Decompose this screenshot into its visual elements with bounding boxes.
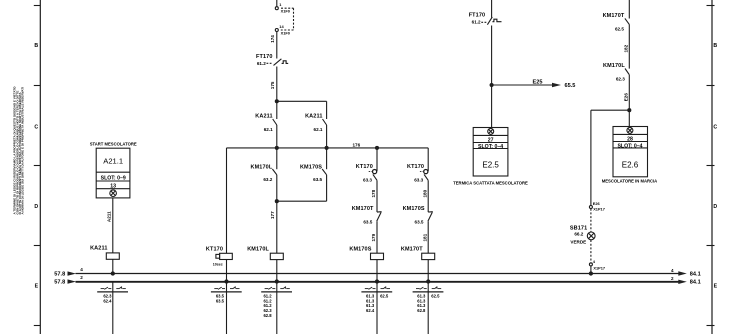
svg-text:62.5: 62.5 (380, 294, 389, 299)
node coil KM170S to rail 2 (375, 280, 378, 283)
svg-text:TERMICA SCATTATA MESCOLATORE: TERMICA SCATTATA MESCOLATORE (453, 180, 528, 185)
PLC block A21.1 caption (90, 142, 137, 147)
rail 1 dest arrow 84.1 (678, 271, 687, 275)
svg-text:C: C (34, 125, 38, 131)
property notice rotated text (13, 86, 25, 215)
svg-text:178: 178 (371, 189, 376, 197)
node split to KA211 branch (275, 100, 278, 103)
svg-text:FT170: FT170 (469, 13, 486, 19)
svg-text:177: 177 (270, 211, 275, 219)
svg-text:66.2: 66.2 (574, 231, 583, 236)
wire E25 to next page arrow (492, 84, 553, 86)
svg-text:4: 4 (671, 268, 674, 273)
svg-text:C: C (713, 125, 717, 131)
svg-text:KM170L: KM170L (250, 164, 272, 170)
svg-text:E: E (714, 284, 718, 290)
node E26 branch (628, 109, 631, 112)
caption E2.5 (453, 180, 528, 185)
left row letters (34, 43, 38, 290)
node on 176 at col2 (325, 146, 328, 149)
svg-text:KM170S: KM170S (300, 164, 322, 170)
svg-text:63.5: 63.5 (313, 177, 322, 182)
svg-text:KM170L: KM170L (247, 246, 269, 252)
wire branch to column 2 (277, 100, 327, 102)
svg-text:14: 14 (279, 24, 284, 29)
wire 179 (376, 221, 378, 253)
svg-text:E2.6: E2.6 (622, 160, 639, 169)
svg-text:28: 28 (627, 136, 633, 142)
svg-text:182: 182 (623, 44, 628, 52)
node coil KA211 to rail 1 (111, 272, 114, 275)
node E25 (490, 84, 493, 87)
svg-text:KA211: KA211 (90, 246, 107, 252)
svg-text:176: 176 (353, 142, 361, 147)
svg-text:4: 4 (80, 267, 83, 272)
svg-text:57.8: 57.8 (54, 279, 65, 285)
svg-text:MESCOLATORE IN MARCIA: MESCOLATORE IN MARCIA (602, 179, 657, 184)
svg-text:181: 181 (422, 233, 427, 241)
svg-text:63.2: 63.2 (263, 177, 272, 182)
svg-text:X1P17: X1P17 (593, 266, 605, 271)
dashed wire to lamp (590, 209, 592, 232)
PLC input card E2.5 (473, 128, 508, 177)
svg-text:SLOT: 0–4: SLOT: 0–4 (617, 143, 642, 149)
wire from top (KM170T right col) (628, 0, 630, 19)
svg-text:27: 27 (488, 137, 494, 143)
thermal overload contact FT170 (right) (481, 17, 501, 25)
svg-text:13: 13 (110, 184, 116, 190)
wire E26 (628, 75, 630, 127)
contact mirror KM170T (413, 286, 444, 292)
wire from 176 down to KT170 coil (226, 148, 228, 253)
PLC output point symbol (110, 190, 117, 197)
svg-text:E25: E25 (533, 79, 543, 85)
svg-text:KT170: KT170 (407, 164, 424, 170)
contact KA211 (col 2) (326, 101, 328, 119)
coil KA211 (90, 246, 107, 252)
contact KM170L (col 1) (276, 148, 278, 169)
contact mirror KT170 (211, 286, 242, 292)
coil KM170T (401, 246, 423, 252)
svg-text:VERDE: VERDE (570, 240, 586, 245)
svg-text:KM170T: KM170T (352, 206, 374, 212)
svg-text:63.5: 63.5 (216, 298, 225, 303)
contact KM170S NC (col 4) (428, 212, 433, 222)
contact KM170T (right col) (625, 18, 629, 24)
node coil KM170T to rail 2 (427, 280, 430, 283)
rail 1 source arrow 57.8 (68, 271, 77, 275)
svg-text:62.8: 62.8 (417, 308, 426, 313)
svg-text:62.4: 62.4 (366, 308, 375, 313)
wire 176 corner down at col 4 (427, 148, 429, 171)
PLC input point symbol (627, 127, 633, 133)
contact KT170 timer (col 3) (376, 148, 378, 171)
wire from top (FT170 right) (491, 0, 493, 18)
coil KM170S (349, 246, 371, 252)
svg-text:62.5: 62.5 (431, 294, 440, 299)
svg-text:10sec: 10sec (213, 263, 223, 267)
contact KM170L (right col) (625, 69, 629, 75)
contact KT170 timer (col 4) (420, 170, 428, 181)
svg-text:63.3: 63.3 (414, 177, 423, 182)
contact mirror KA211 (112, 282, 114, 334)
svg-text:57.8: 57.8 (54, 271, 65, 277)
svg-text:KM170S: KM170S (403, 206, 425, 212)
contact mirror KM170L (261, 286, 292, 292)
svg-text:62.8: 62.8 (263, 313, 272, 318)
svg-text:4: 4 (593, 259, 596, 264)
svg-text:FT170: FT170 (256, 54, 273, 60)
node on 176 at col1 (275, 146, 278, 149)
dashed wire from lamp (590, 240, 592, 263)
svg-text:KM170T: KM170T (603, 13, 625, 19)
svg-text:63.5: 63.5 (363, 219, 372, 224)
node on 176 at col3 (376, 146, 379, 149)
terminal X1P17 pin E26 (589, 206, 592, 209)
coil KT170 (timer) (206, 246, 223, 252)
svg-text:2: 2 (80, 275, 83, 280)
PLC output card A21.1 (96, 148, 130, 198)
wire 181 (427, 221, 429, 253)
wire from top into terminal (col1) (276, 0, 278, 7)
right row letters (713, 43, 717, 290)
rail 1 wire 4 (76, 273, 680, 275)
wire 175 (276, 67, 278, 102)
svg-text:84.1: 84.1 (690, 271, 701, 277)
svg-text:KT170: KT170 (356, 164, 373, 170)
wire 177 (276, 201, 278, 253)
svg-text:KT170: KT170 (206, 246, 223, 252)
wire 180 (427, 180, 429, 212)
svg-text:KM170L: KM170L (603, 63, 625, 69)
rail 2 dest arrow 84.1 (678, 280, 687, 284)
svg-text:E26: E26 (593, 201, 601, 206)
svg-text:START MESCOLATORE: START MESCOLATORE (90, 142, 137, 147)
svg-text:84.1: 84.1 (690, 280, 701, 286)
svg-text:KA211: KA211 (305, 113, 322, 119)
svg-text:X1F0: X1F0 (281, 9, 290, 14)
thermal overload contact FT170 (267, 59, 289, 66)
terminal X1F0 pin 1 (275, 7, 278, 10)
svg-text:A21.1: A21.1 (103, 156, 123, 165)
svg-text:174: 174 (270, 35, 275, 43)
caption E2.6 (602, 179, 657, 184)
join wire col2 to col1 (277, 200, 327, 202)
lamp SB171 (587, 232, 595, 240)
svg-text:E2.5: E2.5 (482, 160, 499, 169)
svg-text:D: D (34, 204, 38, 210)
contact KM170S (col 2) (326, 148, 328, 169)
svg-text:62.3: 62.3 (616, 77, 625, 82)
svg-text:SLOT: 0–4: SLOT: 0–4 (478, 144, 503, 150)
wire 174 (276, 32, 278, 59)
wire 176 horizontal rail (227, 147, 429, 149)
contact mirror KM170S (361, 286, 392, 292)
svg-text:1: 1 (279, 2, 282, 7)
rail 2 wire 2 (76, 281, 680, 283)
contact KA211 (col 1) (276, 101, 278, 119)
wire lamp to rail 1 (590, 266, 592, 274)
svg-text:61.2: 61.2 (257, 61, 266, 66)
svg-text:X1F0: X1F0 (281, 30, 290, 35)
svg-text:63.3: 63.3 (363, 177, 372, 182)
svg-text:KM170T: KM170T (401, 246, 423, 252)
svg-text:61.2: 61.2 (472, 20, 481, 25)
svg-text:E26: E26 (623, 93, 628, 102)
svg-text:62.1: 62.1 (264, 127, 273, 132)
svg-text:179: 179 (371, 233, 376, 241)
node coil KM170L to rail 2 (275, 280, 278, 283)
terminal X1P17 pin 4 (589, 263, 592, 266)
left drawing border (34, 0, 41, 334)
svg-text:KA211: KA211 (255, 113, 272, 119)
PLC input point symbol (488, 128, 494, 134)
svg-text:B: B (713, 43, 717, 49)
svg-text:62.4: 62.4 (103, 298, 112, 303)
coil KM170L (247, 246, 269, 252)
right drawing border (707, 0, 715, 334)
wire branch to lamp column (591, 109, 629, 111)
svg-text:A211: A211 (107, 211, 112, 222)
svg-text:175: 175 (270, 81, 275, 89)
svg-text:62.5: 62.5 (615, 26, 624, 31)
wire A211 (112, 198, 114, 253)
terminal X1F0 pin 14 (275, 29, 278, 32)
contact KM170T NC (col 3) (377, 212, 382, 222)
svg-text:A NORMA DI LEGGE SUI DIRITTI D: A NORMA DI LEGGE SUI DIRITTI DI AUTORE E… (21, 87, 25, 215)
node coil KT170 to rail 2 (225, 280, 228, 283)
svg-text:E: E (35, 284, 39, 290)
svg-text:63.5: 63.5 (415, 219, 424, 224)
node lamp to rail 1 (589, 272, 592, 275)
svg-text:X1P17: X1P17 (593, 207, 605, 212)
svg-text:SLOT: 0–9: SLOT: 0–9 (101, 175, 126, 181)
svg-text:62.1: 62.1 (314, 127, 323, 132)
svg-text:D: D (713, 204, 717, 210)
svg-text:65.5: 65.5 (565, 83, 576, 89)
wire 182 (628, 24, 630, 68)
svg-text:2: 2 (671, 276, 674, 281)
wire down to node (491, 26, 493, 128)
svg-text:KM170S: KM170S (349, 246, 371, 252)
wire 178 (376, 180, 378, 212)
dashed jumper wire (281, 8, 294, 30)
svg-text:180: 180 (422, 189, 427, 197)
PLC input card E2.6 (613, 127, 648, 177)
svg-text:B: B (34, 43, 38, 49)
rail 2 source arrow 57.8 (68, 279, 77, 283)
